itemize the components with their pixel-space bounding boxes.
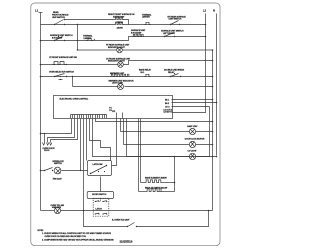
label row1 left switch — [52, 11, 69, 19]
wire lamp2 row to contact box — [61, 210, 213, 212]
wire plug lead 2 — [48, 119, 75, 143]
wire staircase to latch box A — [90, 119, 111, 161]
svg-text:OVEN SELECTOR SWITCH: OVEN SELECTOR SWITCH — [49, 71, 74, 73]
wire interlock row from L1 — [41, 170, 45, 172]
svg-text:SWITCH: SWITCH — [54, 163, 62, 165]
wire cv light row — [127, 156, 190, 158]
svg-text:LIGHT 120V: LIGHT 120V — [112, 83, 123, 85]
svg-text:JP1: JP1 — [112, 111, 116, 113]
connector oven door plug pins — [43, 143, 52, 146]
switch latch blade inside box — [90, 165, 107, 174]
wire relay feed row — [93, 119, 210, 157]
wire row2 left — [41, 37, 206, 41]
node N label — [213, 8, 215, 12]
svg-text:INDICATOR LIGHT: INDICATOR LIGHT — [108, 46, 126, 49]
lamp surface indicator light 2 — [118, 62, 124, 68]
lamp oven interior light — [54, 167, 61, 174]
svg-text:B. OVEN TOD 160F: B. OVEN TOD 160F — [112, 220, 130, 222]
wire bake element row — [141, 182, 146, 184]
wire vertical x213 down to latch row — [212, 50, 214, 211]
svg-text:75W 120V: 75W 120V — [53, 179, 63, 181]
wire vertical x206 to relay row — [209, 107, 211, 157]
svg-text:LEFT FRONT: LEFT FRONT — [163, 33, 176, 35]
label comb pin numbers — [109, 108, 112, 112]
svg-text:RELAY: RELAY — [168, 71, 175, 74]
switch oven light interlock — [44, 168, 53, 172]
resistor broil element — [147, 189, 162, 192]
wire cv light feed vertical — [126, 119, 128, 157]
svg-text:UNIT SWITCH: UNIT SWITCH — [169, 19, 182, 21]
label oven door plug — [43, 148, 56, 152]
svg-text:8 IN 2400W: 8 IN 2400W — [52, 38, 62, 40]
thermal limiter row4 right — [145, 74, 151, 76]
relay contact box (dashed) — [93, 198, 109, 216]
label lamp3 — [109, 79, 134, 84]
motor door lock — [189, 141, 195, 147]
wire TOD branch vertical — [84, 211, 128, 227]
node L2 label — [203, 8, 207, 12]
wire interlock row to latch switch box — [62, 170, 88, 172]
switch SW1 surface unit (row1) — [54, 19, 65, 25]
svg-text:BROIL ELEMENT 3410W: BROIL ELEMENT 3410W — [145, 188, 167, 190]
wire lamp3 riser — [72, 77, 74, 87]
thermal limiter row2 — [87, 38, 95, 40]
wire EOC pin CV to vertical — [173, 106, 210, 108]
wire lamp1 riser — [77, 40, 78, 41]
wire lamp3 row — [73, 86, 119, 88]
resistor surface element row2 — [133, 34, 144, 36]
svg-text:UNIT SWITCH: UNIT SWITCH — [52, 17, 65, 19]
switch SW5 oven selector — [54, 74, 67, 81]
label row1 element — [108, 13, 135, 18]
wire TOD feed vertical from EOC — [83, 119, 85, 211]
svg-text:INDICATOR LIGHT: INDICATOR LIGHT — [108, 60, 126, 63]
svg-text:CV 3: CV 3 — [165, 106, 170, 108]
pin stubs EOC right edge — [172, 100, 174, 107]
switch SW4 row2 right — [164, 33, 175, 38]
wire EOC pin DB to vertical — [173, 99, 213, 101]
svg-text:N: N — [213, 8, 215, 12]
svg-text:WARMER UNIT: WARMER UNIT — [110, 72, 125, 75]
switch TOD thermal — [127, 223, 137, 228]
wire L1 bus vertical — [40, 13, 42, 211]
wire spare pin row — [96, 119, 213, 122]
label TDL lamp — [51, 205, 64, 209]
junction row4/L2 — [212, 76, 214, 78]
wire row1 lower from L1 — [41, 24, 115, 26]
svg-text:BK 1: BK 1 — [165, 99, 170, 101]
svg-text:2350W 240V: 2350W 240V — [113, 16, 125, 18]
svg-text:LATCH SW: LATCH SW — [93, 163, 103, 166]
wire oven light row — [121, 131, 190, 133]
wire broil element row — [139, 191, 147, 193]
op-amp U1 electronic oven control box — [54, 96, 173, 119]
wire row4 — [41, 76, 213, 78]
svg-text:LATCH: LATCH — [96, 207, 103, 210]
junction row1/L2 — [205, 24, 207, 26]
label lamp1 — [106, 44, 130, 49]
label row2 element — [131, 29, 146, 34]
svg-text:LT FRONT SURFACE UNIT SW: LT FRONT SURFACE UNIT SW — [49, 56, 77, 59]
lamp oven indicator light 3 — [118, 84, 124, 90]
svg-text:DOOR LOCK MOTOR: DOOR LOCK MOTOR — [185, 139, 205, 141]
svg-text:DOOR SWITCH: DOOR SWITCH — [92, 194, 107, 196]
label dlb relay left — [139, 69, 152, 74]
svg-text:PLUG: PLUG — [44, 150, 50, 152]
lamp cv light — [189, 153, 195, 159]
wire row1 to L2 — [129, 24, 206, 26]
junction row2/L2 — [205, 36, 207, 38]
wire door lock motor feed vertical — [123, 119, 125, 145]
wire bake row to vertical — [161, 182, 175, 184]
wire door lock motor row — [124, 144, 190, 146]
wire plug lead 3 — [51, 119, 78, 143]
lamp surface indicator light 1 — [117, 47, 123, 53]
wire EOC pin BA to N — [173, 102, 217, 104]
svg-text:L1: L1 — [35, 8, 39, 12]
wire TOD row to right riser — [137, 211, 209, 227]
svg-text:LIMITER: LIMITER — [142, 17, 150, 19]
wire broil element feed vertical — [138, 119, 140, 192]
svg-text:6 IN 1500W: 6 IN 1500W — [131, 33, 141, 35]
connector jumper bracket — [112, 111, 123, 118]
label row2 left switch — [50, 34, 73, 39]
label row1 limiter — [142, 13, 152, 18]
wire latch box A feed vertical — [86, 119, 88, 161]
svg-text:OVEN DOOR CLOSED AND UNLOCKED: OVEN DOOR CLOSED AND UNLOCKED POS. — [45, 235, 87, 238]
lamp oven TDL light — [54, 207, 60, 213]
junction lamp1/L2 — [212, 49, 214, 51]
svg-text:L2: L2 — [203, 8, 207, 12]
resistor surface element upper winding — [115, 17, 124, 19]
svg-text:CV LIGHT: CV LIGHT — [188, 151, 198, 153]
page border frame — [31, 3, 220, 246]
svg-text:BA 2: BA 2 — [165, 102, 170, 105]
relay K2 door latch relay box — [87, 192, 113, 199]
svg-text:N.O.: N.O. — [141, 72, 145, 74]
wire plug lead 1 — [41, 119, 72, 134]
wire L1 bus — [39, 12, 43, 14]
wire element return vertical — [174, 157, 176, 192]
connector comb strip inside EOC — [71, 114, 107, 116]
label EOC pins right — [164, 99, 174, 113]
resistor warmer element row4 — [111, 74, 130, 76]
relay K1 latch switch box — [88, 161, 112, 176]
resistor dual element row3 — [53, 62, 66, 65]
label row1 right switch — [168, 15, 187, 20]
wire row1-row2 link — [77, 25, 79, 51]
label interlock switch — [53, 161, 65, 165]
label row2 limiter — [83, 35, 93, 40]
wire latch row to vertical x213 — [208, 210, 210, 212]
wire latch link vertical — [100, 177, 102, 192]
label row2 right switch — [161, 30, 184, 35]
svg-text:1. CHECK WIRES FOR ALL CONTROL: 1. CHECK WIRES FOR ALL CONTROLS SET TO O… — [42, 232, 112, 235]
wire relay contact link 2 (dashed) — [100, 199, 102, 202]
svg-text:1300W: 1300W — [117, 28, 123, 30]
svg-text:2. COMPONENTS REF. MAY OR MAY: 2. COMPONENTS REF. MAY OR MAY NOT APPEAR… — [42, 238, 114, 241]
wire latch box exit right — [112, 113, 117, 166]
wire lamp1 row — [78, 49, 117, 51]
svg-text:2350W: 2350W — [117, 22, 123, 24]
resistor bake element — [146, 180, 162, 183]
contacts inside dashed box — [95, 201, 108, 215]
thermal limiter row1 — [145, 22, 151, 24]
label dlb relay right — [164, 69, 185, 74]
wire row3 — [41, 64, 119, 66]
svg-text:BAKE ELEMENT 2585W: BAKE ELEMENT 2585W — [145, 176, 167, 179]
wire lamp2 row from L1 corner — [41, 210, 55, 212]
node L1 label — [35, 8, 39, 12]
svg-text:40W 120V: 40W 120V — [52, 207, 62, 209]
svg-text:316255519: 316255519 — [120, 239, 133, 243]
svg-text:LAMP 120V: LAMP 120V — [187, 125, 198, 128]
wire N bus vertical — [216, 14, 218, 156]
svg-text:LIMITER: LIMITER — [84, 38, 92, 40]
lamp oven light — [189, 128, 195, 134]
wire broil row to vertical — [160, 191, 175, 193]
switch SW2 row1 right — [170, 21, 180, 26]
wire row1 upper branch — [65, 19, 115, 21]
svg-text:LK MOT 5: LK MOT 5 — [164, 112, 174, 114]
svg-text:NOTE:: NOTE: — [38, 230, 44, 232]
switch SW6 row4 right dlb — [170, 73, 181, 77]
label lamp2 — [106, 57, 131, 62]
wire interlock feed vertical — [80, 119, 82, 171]
label notes block — [38, 230, 115, 241]
junction lamp3/L2 — [212, 86, 214, 88]
wire oven light feed vertical — [120, 119, 122, 132]
wire bake element feed vertical — [140, 119, 142, 183]
resistor surface element lower winding — [115, 22, 124, 24]
junction row3/L2 — [212, 60, 214, 62]
wire winding merge — [123, 20, 129, 25]
wire L2 bus vertical with corner to EOC box — [173, 14, 206, 113]
svg-text:ELECTRONIC OVEN CONTROL: ELECTRONIC OVEN CONTROL — [60, 99, 90, 101]
switch SW3 row2 left — [54, 36, 65, 41]
